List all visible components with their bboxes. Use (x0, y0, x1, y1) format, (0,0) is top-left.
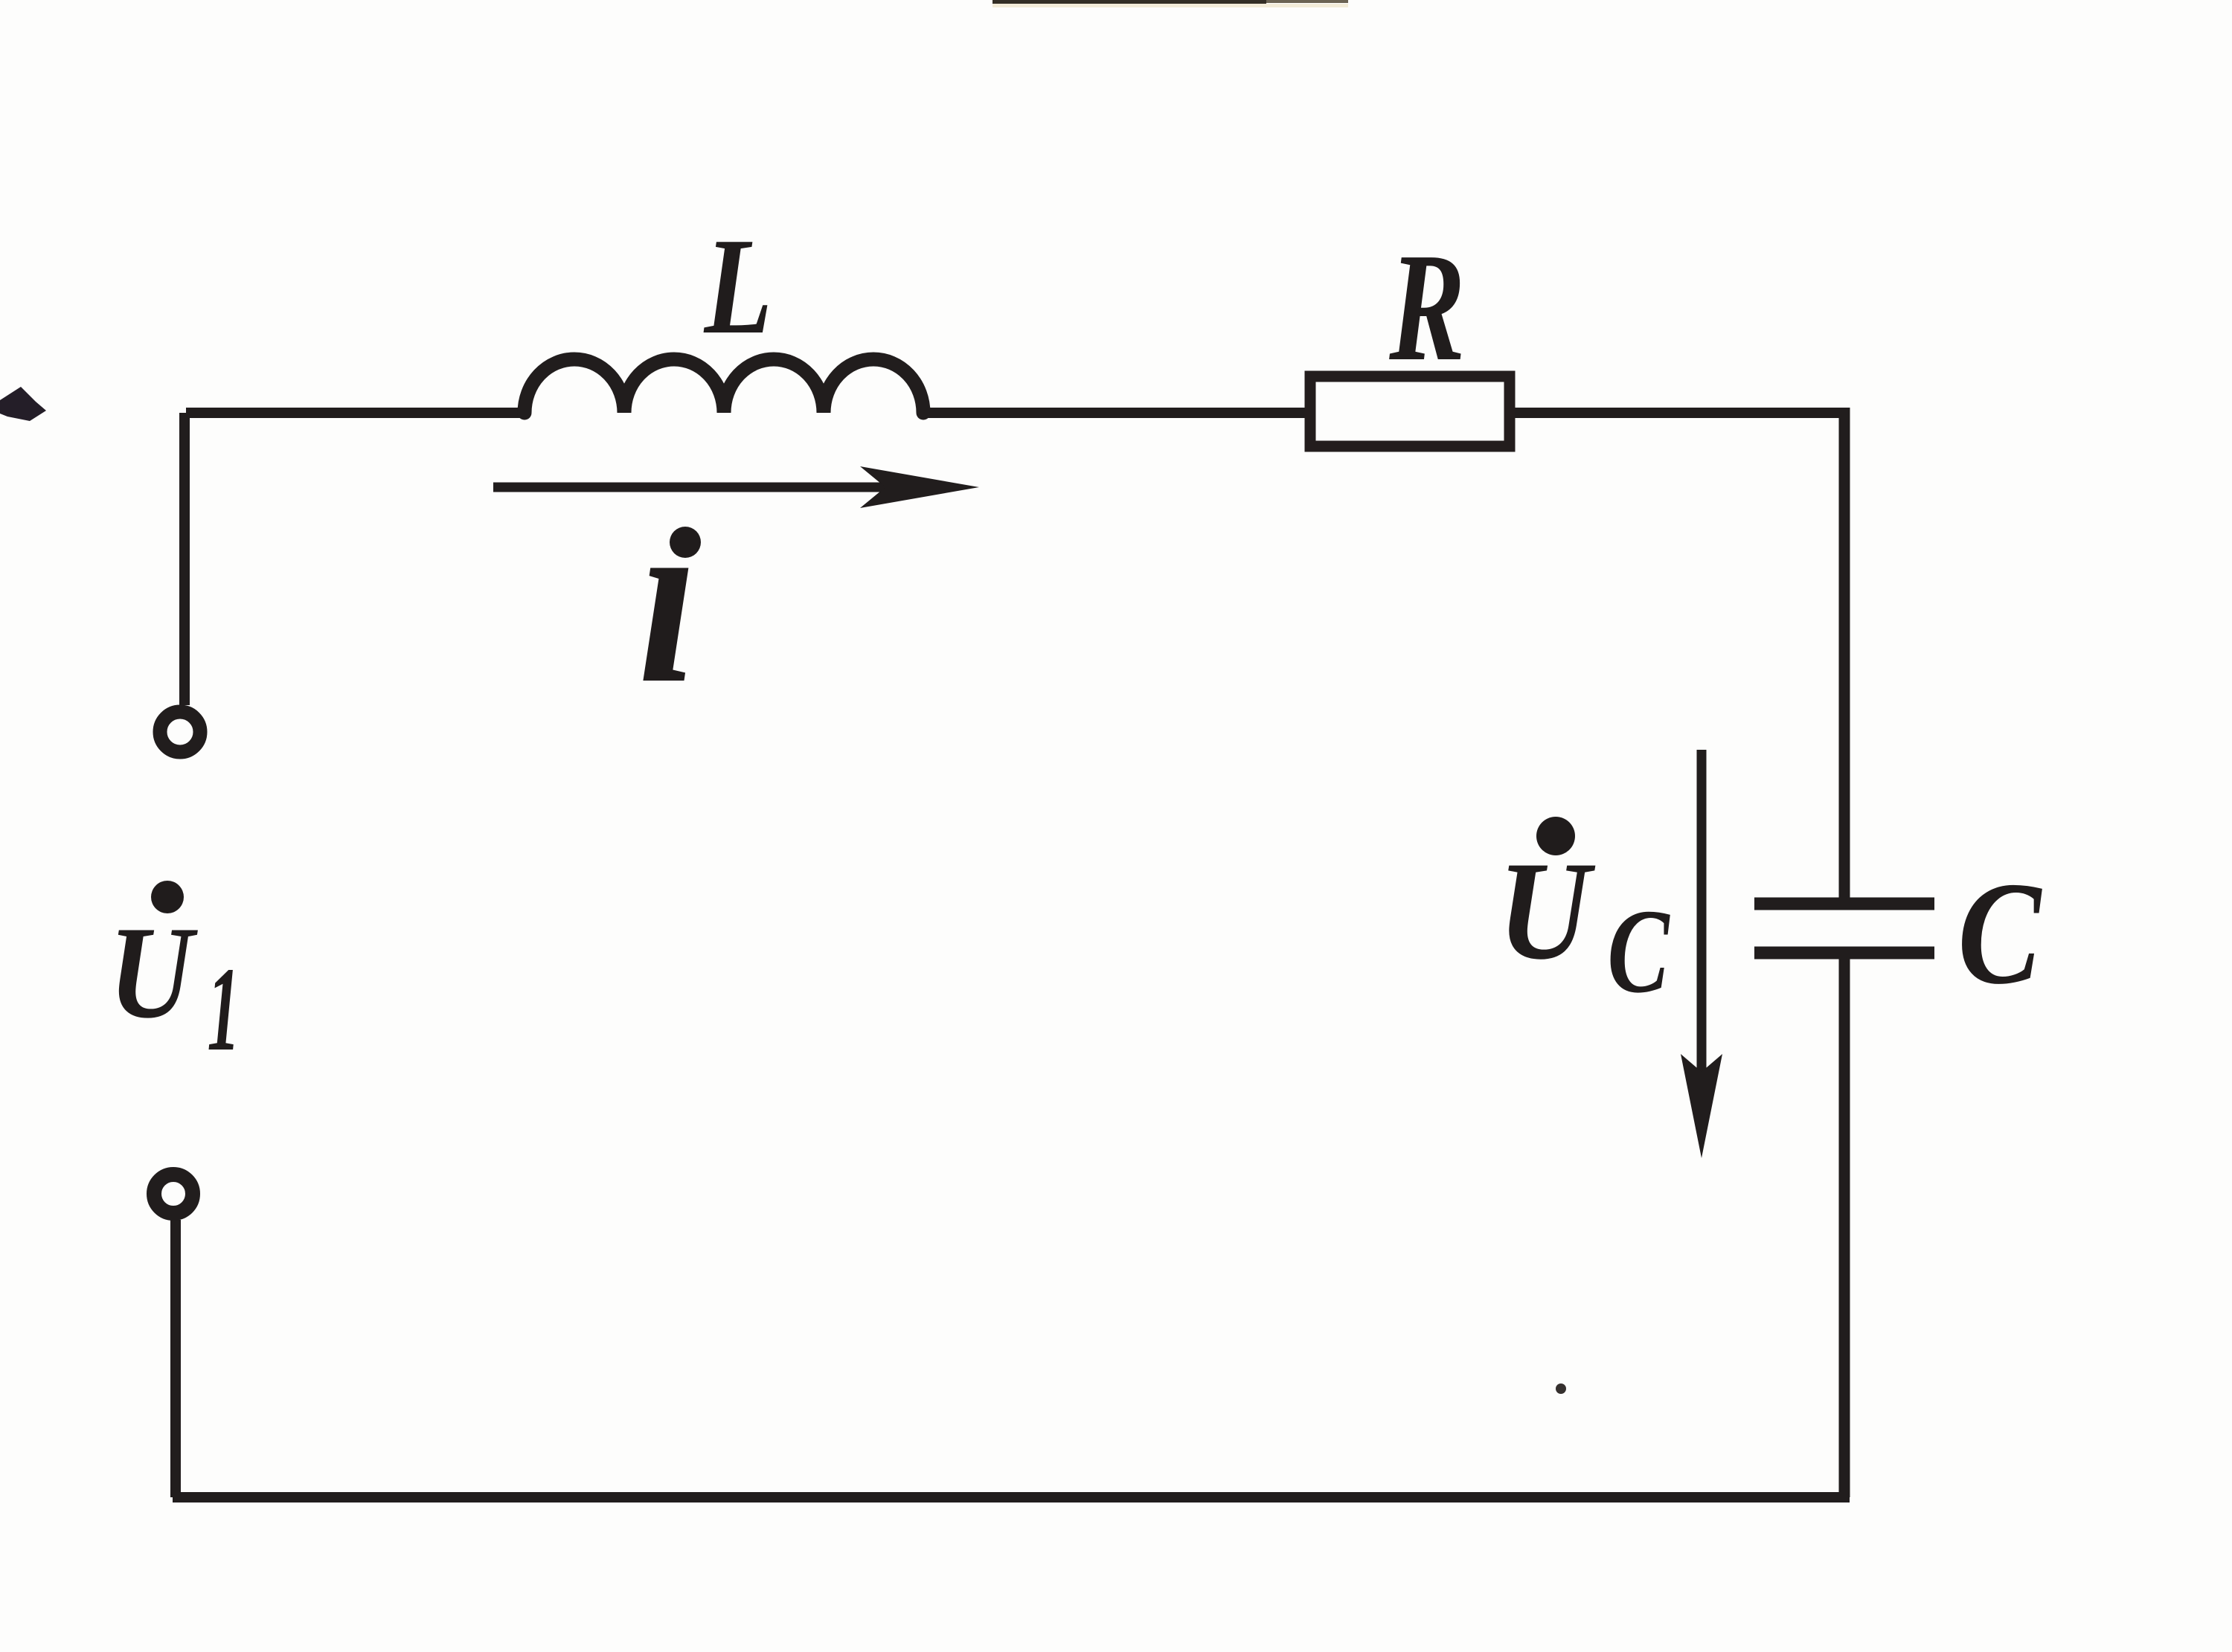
wire upper-left vertical (179, 413, 190, 705)
voltage arrow UC down (1697, 750, 1707, 1082)
svg-text:U: U (1498, 833, 1596, 989)
capacitor C bottom plate (1754, 947, 1934, 960)
wire top-left horizontal (186, 408, 528, 418)
resistor R box (1310, 376, 1510, 446)
wire between inductor and resistor (923, 408, 1305, 418)
wire right vertical lower (1839, 953, 1850, 1497)
scan artifact left-edge mark (0, 387, 46, 421)
current arrow i (493, 483, 893, 492)
svg-text:C: C (1607, 885, 1670, 1018)
inductor L coil (525, 359, 923, 413)
scan speck (1556, 1383, 1566, 1394)
svg-text:L: L (703, 210, 772, 363)
label i dot (670, 527, 701, 558)
terminal upper-left (160, 712, 200, 752)
wire lower-left vertical (170, 1220, 181, 1497)
svg-text:ı: ı (638, 462, 698, 734)
svg-text:C: C (1957, 851, 2042, 1015)
wire right vertical upper (1839, 408, 1850, 901)
svg-text:U: U (109, 900, 199, 1046)
wire resistor to top-right corner (1515, 408, 1844, 418)
wire bottom horizontal (173, 1492, 1850, 1502)
svg-text:1: 1 (207, 943, 240, 1076)
label UC dot (1536, 817, 1575, 855)
label U1 dot (151, 881, 184, 913)
terminal lower-left (154, 1174, 193, 1213)
capacitor C top plate (1754, 898, 1934, 910)
svg-text:R: R (1388, 221, 1465, 393)
scan artifact top bar (992, 0, 1266, 4)
